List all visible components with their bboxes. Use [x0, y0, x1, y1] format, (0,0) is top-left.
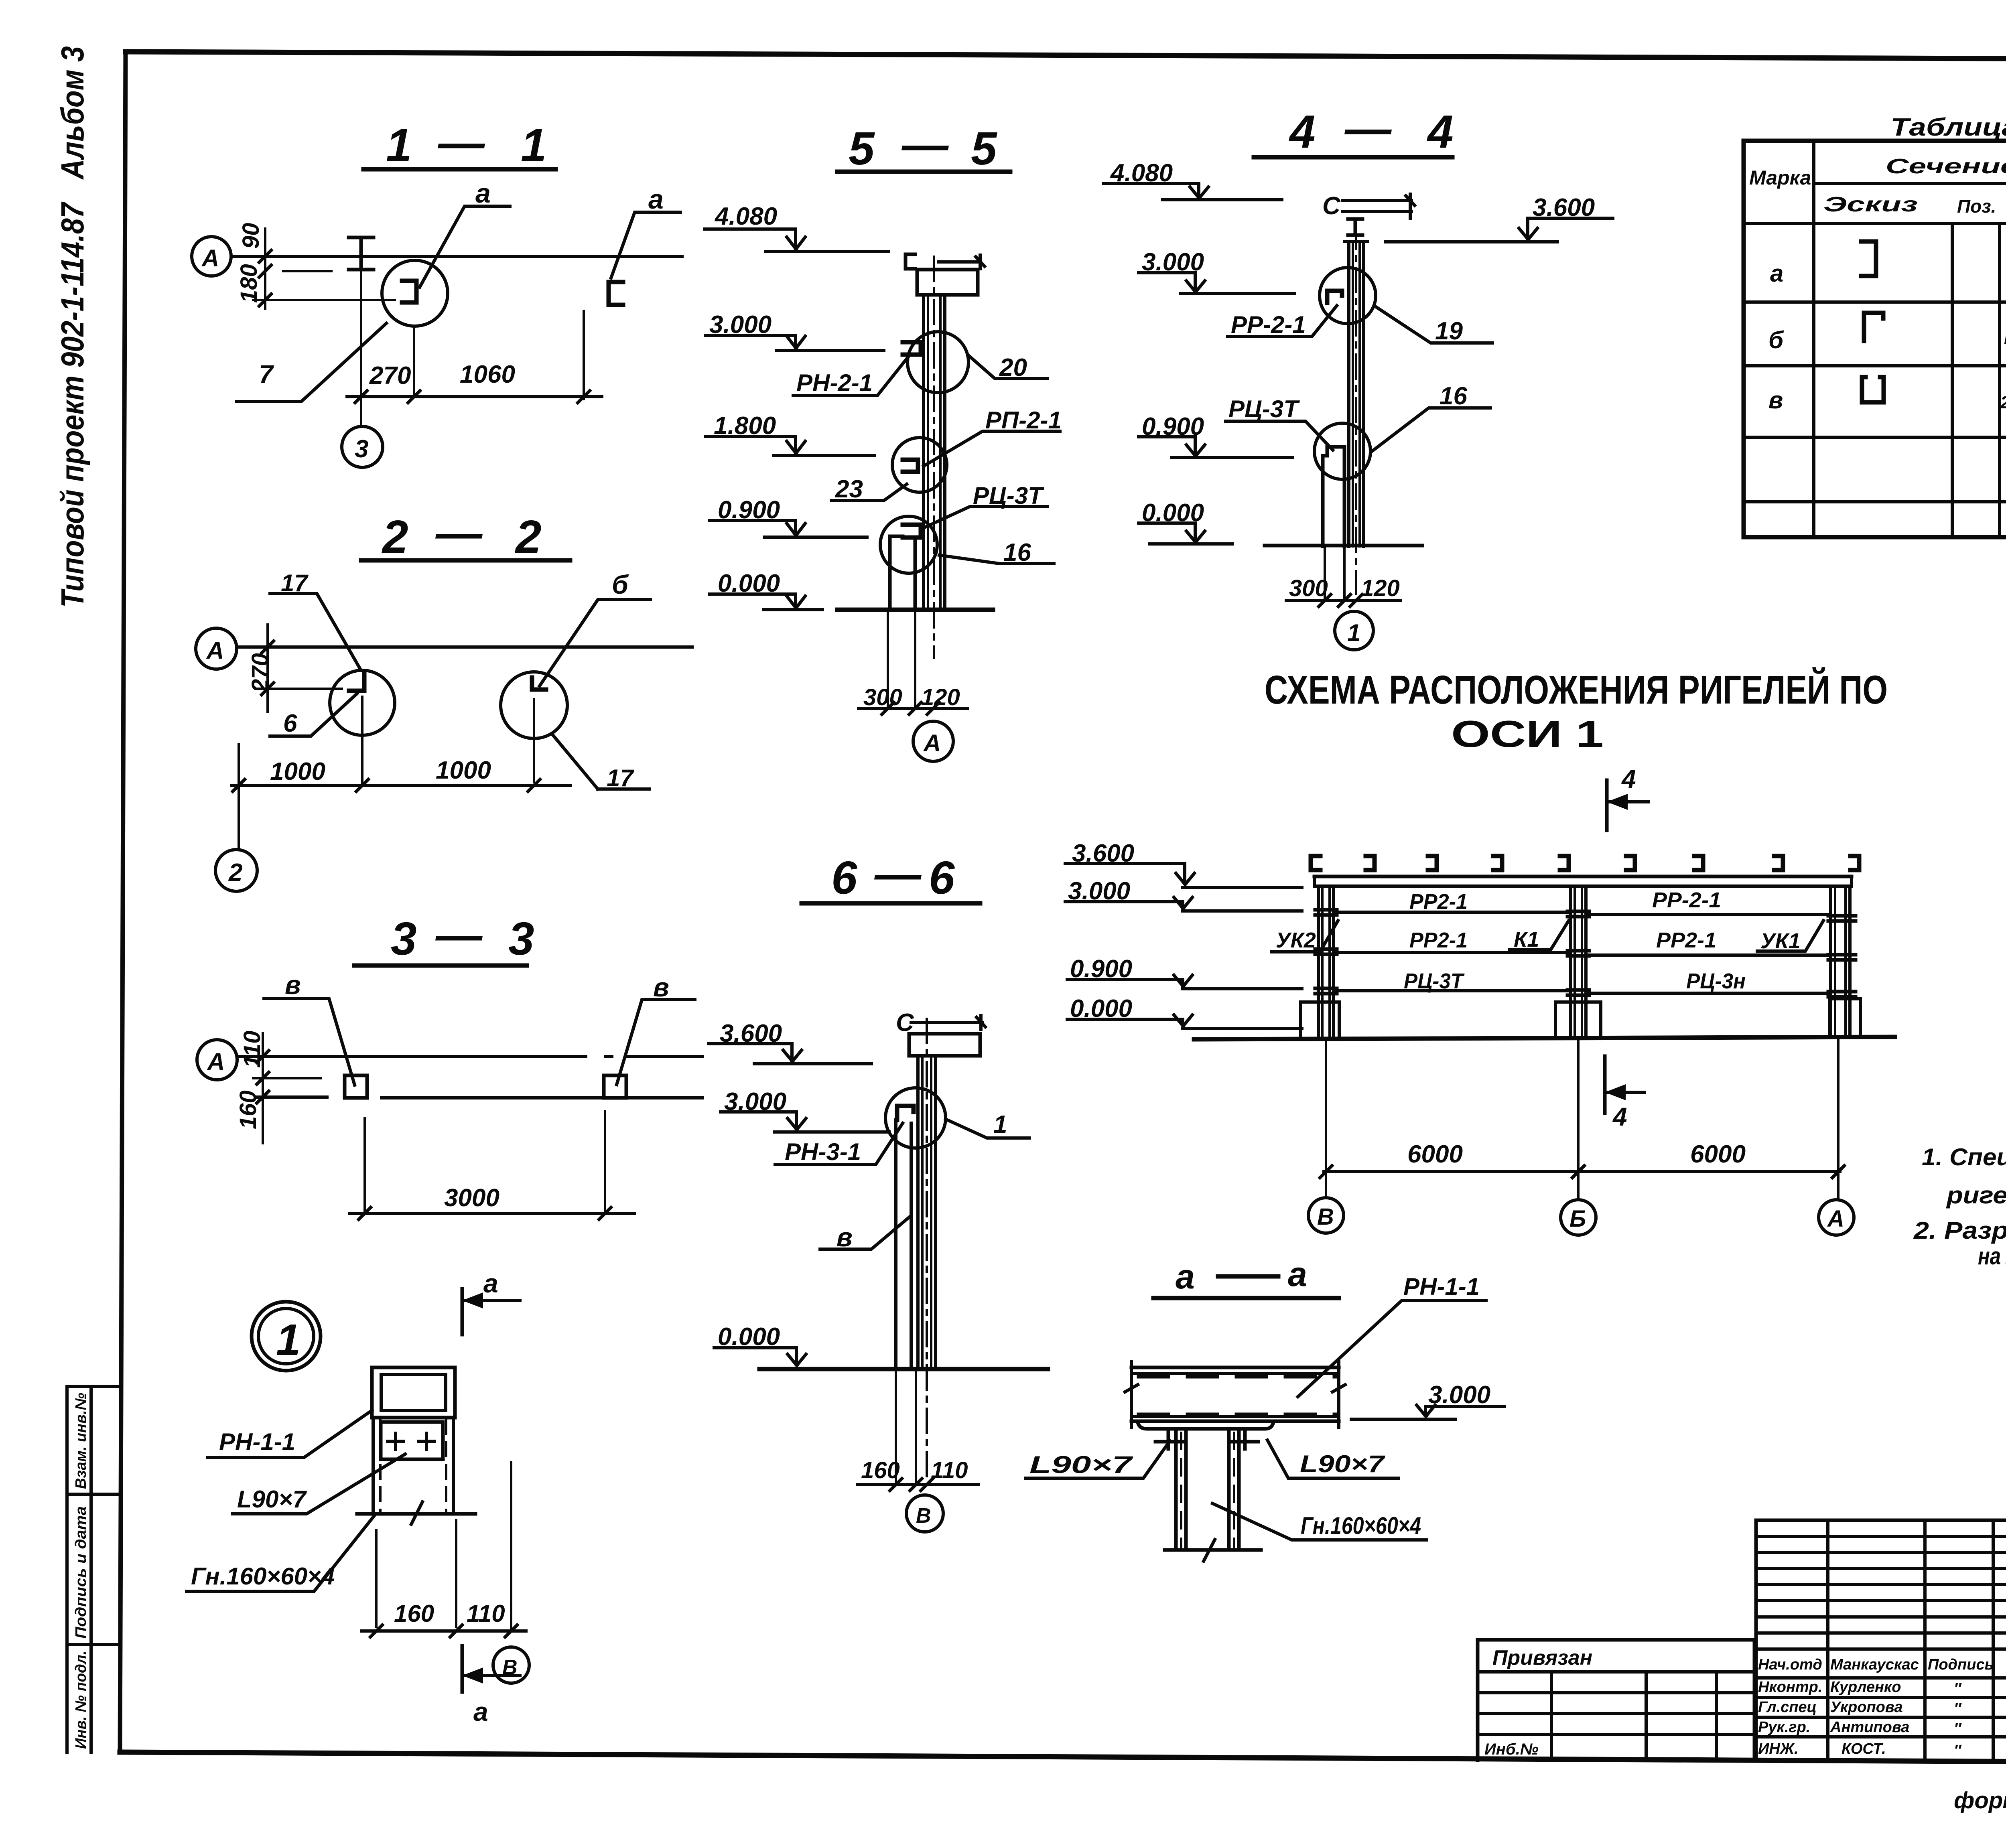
wire extensions below ground — [1325, 546, 1344, 600]
cap plate plan (outer rect) — [372, 1367, 455, 1418]
svg-text:РР2-1: РР2-1 — [1409, 890, 1468, 914]
svg-text:РЦ-3Т: РЦ-3Т — [1404, 969, 1465, 993]
svg-text:А: А — [207, 1048, 225, 1075]
column shaft — [1349, 241, 1364, 546]
column cap plate — [909, 1034, 980, 1056]
svg-text:СХЕМА РАСПОЛОЖЕНИЯ РИГЕЛЕЙ ПО: СХЕМА РАСПОЛОЖЕНИЯ РИГЕЛЕЙ ПО — [1265, 667, 1888, 712]
collar joints left column — [1315, 910, 1337, 994]
wire extension right channel down — [583, 311, 585, 399]
svg-text:РЦ-3Т: РЦ-3Т — [1228, 396, 1300, 422]
svg-text:Типовой проект 902-1-114.87: Типовой проект 902-1-114.87 Альбом 3 — [55, 46, 90, 608]
dim tick marks — [1319, 594, 1362, 607]
wire extension from bracket down — [413, 326, 415, 397]
wire top line with tick — [911, 1016, 985, 1029]
wire stubs to axis bubbles — [1326, 1172, 1838, 1200]
svg-text:а: а — [1770, 260, 1783, 287]
wire axis line A — [237, 645, 692, 649]
dim tick marks — [355, 391, 590, 403]
svg-text:РР2-1: РР2-1 — [1409, 928, 1468, 952]
beam slab top lines — [1131, 1366, 1339, 1369]
svg-text:1: 1 — [993, 1111, 1007, 1138]
wire dim line — [361, 1629, 526, 1633]
svg-text:в: в — [837, 1222, 853, 1252]
svg-text:формат А2: формат А2 — [1954, 1787, 2006, 1814]
column center dash line — [933, 257, 935, 658]
girder end bracket — [1626, 856, 1635, 870]
column base stub — [1323, 447, 1344, 546]
column I-beam right — [1229, 1431, 1239, 1550]
svg-text:А: А — [923, 730, 941, 757]
channel bracket in circle — [903, 460, 918, 472]
wire extensions below ground — [896, 1369, 916, 1485]
node axis bubble В — [1308, 1198, 1344, 1233]
svg-text:4: 4 — [1427, 105, 1454, 158]
svg-text:—: — — [874, 848, 922, 900]
svg-text:1060: 1060 — [460, 361, 515, 388]
node axis bubble 1 — [1335, 611, 1373, 650]
svg-text:L90×7: L90×7 — [237, 1486, 307, 1513]
svg-text:Гн.70×50×3: Гн.70×50×3 — [2004, 328, 2006, 348]
wire table vertical lines — [1814, 141, 2006, 537]
dim tick marks — [890, 1479, 933, 1491]
svg-text:23: 23 — [835, 475, 863, 503]
I-beam symbol on axis — [349, 237, 374, 270]
wire title underline — [1254, 155, 1452, 160]
node axis bubble A — [192, 237, 231, 276]
dim tick marks — [1320, 1166, 1844, 1178]
svg-text:L90×7: L90×7 — [1300, 1450, 1385, 1477]
column shaft — [924, 295, 945, 610]
svg-text:РН-3-1: РН-3-1 — [785, 1138, 861, 1165]
column square right — [604, 1075, 626, 1098]
wire dim line — [858, 1483, 978, 1486]
svg-text:2Гн.160×60×4: 2Гн.160×60×4 — [2000, 393, 2006, 412]
svg-text:Гн.160×60×4: Гн.160×60×4 — [1301, 1512, 1421, 1539]
dim tick marks — [882, 702, 939, 714]
channel bracket in circle — [903, 342, 921, 355]
collar joints right column — [1828, 916, 1856, 997]
beam dashed reinforcement lines — [1139, 1375, 1336, 1379]
svg-text:—: — — [1344, 102, 1392, 154]
corner bracket in circle — [897, 1106, 914, 1120]
left bottom stamp boxes — [67, 1386, 120, 1752]
node axis bubble 2 — [215, 850, 257, 891]
detail circle right — [501, 672, 567, 738]
svg-text:110: 110 — [931, 1457, 968, 1483]
wire extension line vertical — [264, 229, 266, 309]
svg-text:ОСИ 1: ОСИ 1 — [1451, 713, 1604, 755]
column left — [1318, 886, 1334, 1038]
svg-text:6000: 6000 — [1690, 1140, 1746, 1168]
corner bracket in right circle — [532, 678, 546, 690]
cap plate plan (inner rect) — [381, 1375, 446, 1410]
svg-text:Нач.отд: Нач.отд — [1758, 1656, 1822, 1673]
column outline below — [373, 1418, 453, 1513]
detail circle bottom — [880, 516, 937, 573]
girder РН-3-1 edge lines — [896, 1120, 911, 1369]
column shaft — [918, 1056, 936, 1369]
svg-text:1. Спецификацию к схеме распол: 1. Спецификацию к схеме расположения — [1922, 1144, 2006, 1170]
foundation block left — [1301, 1002, 1339, 1038]
svg-text:6: 6 — [929, 852, 955, 904]
wire stamp box grid — [67, 1386, 120, 1752]
girder end bracket — [1493, 856, 1502, 870]
svg-text:4: 4 — [1612, 1102, 1627, 1131]
wire dim line — [859, 707, 968, 710]
wire extension from circles down — [362, 697, 534, 785]
svg-text:7: 7 — [259, 360, 274, 389]
svg-text:″: ″ — [1954, 1680, 1962, 1697]
svg-text:90: 90 — [238, 223, 264, 249]
svg-text:Взам. инв.№: Взам. инв.№ — [73, 1393, 89, 1489]
svg-text:К1: К1 — [1514, 927, 1539, 951]
svg-text:РН-2-1: РН-2-1 — [796, 369, 873, 396]
dim tick marks — [359, 1207, 611, 1219]
beam slab bottom lines — [1131, 1415, 1339, 1418]
foundation block right — [1829, 999, 1860, 1037]
collar joints middle column — [1567, 911, 1589, 995]
svg-text:Укропова: Укропова — [1830, 1699, 1902, 1716]
beam right edge with break — [1332, 1361, 1345, 1427]
svg-text:160: 160 — [394, 1600, 434, 1627]
section mark a (bottom) — [461, 1646, 464, 1692]
svg-text:в: в — [653, 972, 669, 1002]
detail circle top — [1320, 268, 1376, 324]
wire table horizontal lines — [1744, 183, 2006, 502]
node axis bubble Б — [1561, 1200, 1596, 1235]
svg-text:А: А — [1827, 1206, 1844, 1232]
svg-text:5: 5 — [849, 122, 875, 174]
wire bottom border — [120, 1752, 2006, 1764]
wire dim line — [347, 395, 602, 398]
svg-text:6000: 6000 — [1407, 1140, 1463, 1168]
wire extension line at 180 level — [253, 299, 395, 301]
wire ground line — [1194, 1037, 1895, 1039]
svg-text:6: 6 — [831, 852, 858, 904]
svg-text:Поз.: Поз. — [1957, 196, 1996, 217]
column right — [1831, 886, 1850, 1037]
bottom flange of РН-1-1 — [1138, 1422, 1273, 1429]
wire axis line A — [231, 255, 682, 258]
wire from dim line to bubble 2 — [238, 805, 240, 849]
column square left — [345, 1075, 367, 1098]
girder end bracket — [1560, 856, 1569, 870]
svg-text:Инв. № подл.: Инв. № подл. — [73, 1651, 89, 1749]
cleat right with bolt tick — [1232, 1429, 1258, 1449]
svg-text:РР-2-1: РР-2-1 — [1652, 888, 1721, 912]
dim tick marks — [257, 1051, 269, 1103]
svg-text:а: а — [475, 178, 491, 209]
wire ground line with break — [1165, 1548, 1261, 1552]
detail circle middle — [892, 438, 947, 492]
svg-text:1: 1 — [521, 119, 547, 171]
svg-text:РН-1-1: РН-1-1 — [219, 1428, 295, 1455]
node axis bubble А — [1819, 1200, 1854, 1235]
svg-text:1: 1 — [276, 1315, 300, 1365]
wire staff table column lines — [1828, 1520, 1993, 1761]
wire extension at top of squares — [253, 1077, 321, 1079]
svg-text:3.000: 3.000 — [1428, 1381, 1490, 1409]
wire axis line A (dash-dot) — [237, 1055, 702, 1058]
svg-text:б: б — [612, 570, 629, 599]
svg-text:Курленко: Курленко — [1830, 1679, 1901, 1696]
cleat left with bolt tick — [1155, 1429, 1183, 1449]
wire extensions below ground — [888, 610, 915, 708]
girder line level 1 — [1334, 912, 1831, 915]
channel bracket at cap — [906, 254, 915, 269]
svg-text:″: ″ — [1954, 1742, 1962, 1759]
detail circle bottom — [1314, 423, 1370, 479]
svg-text:Инб.№: Инб.№ — [1484, 1740, 1539, 1758]
wire title underline — [363, 167, 556, 172]
svg-text:160: 160 — [861, 1457, 900, 1483]
column middle — [1571, 886, 1586, 1038]
column center dash line — [926, 1019, 928, 1480]
channel section [ right — [609, 282, 623, 305]
wire top border — [126, 52, 2006, 61]
girder line level 2 — [1334, 953, 1831, 955]
svg-text:РП-2-1: РП-2-1 — [985, 407, 1062, 434]
wire extension line at flange level — [283, 270, 331, 272]
svg-text:в: в — [285, 970, 301, 1000]
svg-text:Эскиз: Эскиз — [1823, 193, 1918, 216]
wire binding table outline — [1478, 1640, 1754, 1761]
svg-text:″: ″ — [1954, 1720, 1962, 1737]
svg-text:А: А — [206, 637, 224, 664]
row v: sketch open box — [1862, 377, 1884, 402]
svg-text:В: В — [916, 1504, 931, 1527]
wire cap top lines with tick — [1342, 194, 1415, 218]
column dashed inner lines — [379, 1420, 382, 1511]
svg-text:1000: 1000 — [270, 758, 325, 785]
foundation block middle — [1555, 1002, 1601, 1038]
svg-text:КОСТ.: КОСТ. — [1842, 1740, 1886, 1757]
wire extensions to dim line — [1326, 1038, 1838, 1172]
svg-text:—: — — [435, 909, 483, 961]
svg-text:Гл.спец: Гл.спец — [1758, 1699, 1817, 1716]
node detail bubble 1 (double circle) — [252, 1302, 321, 1371]
wire top line with tick — [938, 255, 985, 269]
svg-text:16: 16 — [1440, 382, 1467, 410]
detail circle left — [330, 670, 395, 735]
wire ground line — [1265, 544, 1422, 548]
wire line at bottom of squares — [256, 1097, 702, 1098]
beam section with bolts — [381, 1422, 443, 1459]
svg-text:2: 2 — [382, 511, 408, 563]
svg-text:300: 300 — [1289, 575, 1328, 601]
svg-text:17: 17 — [607, 765, 634, 791]
ground break slash — [411, 1502, 422, 1524]
section mark 4 (bottom) — [1603, 1056, 1607, 1113]
svg-text:180: 180 — [236, 264, 262, 303]
wire dim line — [1324, 1170, 1840, 1173]
wire extension from I-beam down — [360, 271, 362, 397]
svg-text:—: — — [435, 507, 483, 559]
girder end bracket — [1428, 856, 1437, 870]
wire title underline — [837, 170, 1010, 174]
corner bracket in circle — [1327, 291, 1342, 303]
node axis bubble 3 — [342, 426, 383, 467]
girder end bracket E — [1311, 856, 1320, 870]
svg-text:6: 6 — [283, 710, 297, 737]
wire left border — [120, 52, 126, 1752]
wire title underline — [361, 558, 570, 563]
svg-text:а: а — [648, 184, 664, 215]
wire title block outline — [1756, 1520, 2006, 1761]
svg-text:3000: 3000 — [444, 1184, 499, 1212]
svg-text:2. Разрезы 1-1÷6-6 замаркирова: 2. Разрезы 1-1÷6-6 замаркированы — [1913, 1217, 2006, 1244]
column I-beam left — [1176, 1431, 1186, 1550]
base bracket — [903, 525, 921, 538]
svg-text:В: В — [1317, 1204, 1334, 1230]
svg-text:РР2-1: РР2-1 — [1656, 928, 1716, 952]
svg-text:3: 3 — [508, 913, 534, 965]
svg-text:Сечение: Сечение — [1886, 155, 2006, 178]
column top cap line — [1345, 240, 1367, 243]
wire extension at bracket level — [256, 688, 342, 690]
svg-text:в: в — [1768, 387, 1783, 414]
svg-text:Таблица сечений и усилий: Таблица сечений и усилий — [1890, 114, 2006, 141]
wire title underline — [354, 964, 527, 968]
svg-text:ригелей по оси 1 см. лист 13.: ригелей по оси 1 см. лист 13. — [1946, 1182, 2006, 1209]
node axis bubble B — [906, 1495, 943, 1532]
node axis bubble A — [197, 1040, 237, 1080]
corner bracket in left circle — [349, 674, 364, 691]
svg-text:б: б — [1768, 327, 1784, 353]
wire binding table columns — [1551, 1672, 1716, 1759]
wire extension vertical — [266, 625, 269, 712]
node axis bubble A — [913, 721, 953, 761]
girder end bracket — [1850, 856, 1859, 870]
beam left edge with break — [1125, 1361, 1138, 1427]
bolt cross marks — [388, 1433, 434, 1449]
wire ground line — [837, 608, 993, 612]
wire extension vertical — [262, 1033, 264, 1143]
svg-text:а: а — [483, 1268, 498, 1298]
svg-text:Марка: Марка — [1749, 166, 1811, 189]
svg-text:4: 4 — [1621, 765, 1636, 793]
svg-text:2: 2 — [515, 511, 542, 563]
svg-text:Рук.гр.: Рук.гр. — [1758, 1719, 1810, 1736]
svg-text:4.080: 4.080 — [714, 203, 777, 230]
girder end bracket — [1774, 856, 1783, 870]
node axis bubble B — [493, 1647, 529, 1683]
svg-text:А: А — [201, 245, 219, 272]
detail circle top — [908, 332, 968, 393]
svg-text:4: 4 — [1289, 105, 1316, 158]
left margin rotated stamp text — [55, 46, 90, 608]
svg-text:2: 2 — [228, 859, 242, 886]
wire dim line — [349, 1212, 635, 1215]
girder end bracket — [1694, 856, 1703, 870]
svg-text:120: 120 — [1361, 575, 1400, 601]
svg-text:110: 110 — [467, 1600, 505, 1627]
svg-text:5: 5 — [971, 122, 997, 174]
I-beam stub — [1348, 219, 1362, 235]
svg-text:Подпись и дата: Подпись и дата — [73, 1506, 89, 1639]
wire staff table text row lines — [1756, 1678, 2006, 1737]
channel bracket ] in circle — [402, 281, 416, 302]
wire extensions down — [376, 1462, 511, 1631]
svg-text:3: 3 — [391, 913, 417, 965]
svg-text:Привязан: Привязан — [1492, 1646, 1592, 1669]
svg-text:Б: Б — [1569, 1206, 1586, 1232]
svg-text:Манкаускас: Манкаускас — [1830, 1656, 1919, 1673]
svg-text:Подпись: Подпись — [1928, 1656, 1994, 1673]
svg-text:на листе 13.: на листе 13. — [1978, 1243, 2006, 1270]
svg-text:РР-2-1: РР-2-1 — [1231, 311, 1306, 338]
wire table outer border — [1744, 141, 2006, 537]
dim tick marks — [259, 250, 271, 306]
wire extension from squares down — [365, 1111, 605, 1213]
wire binding table rows — [1478, 1672, 1754, 1734]
wire from dim line to bubble 3 — [360, 397, 362, 426]
wire top chord — [1314, 875, 1852, 878]
svg-text:Гн.160×60×4: Гн.160×60×4 — [191, 1563, 335, 1590]
wire staff table upper row lines — [1756, 1536, 2006, 1649]
svg-text:—: — — [901, 118, 949, 170]
svg-text:1: 1 — [1347, 619, 1360, 646]
svg-text:1: 1 — [386, 119, 412, 171]
column cap plate — [917, 270, 978, 295]
wire ground line — [759, 1367, 1048, 1371]
svg-text:Нконтр.: Нконтр. — [1758, 1679, 1822, 1696]
wire extension left end — [238, 744, 240, 805]
wire dim line — [1286, 599, 1401, 602]
node axis bubble A — [196, 628, 237, 669]
row b: sketch corner Г — [1864, 313, 1883, 341]
svg-text:Антипова: Антипова — [1830, 1719, 1909, 1736]
dim tick marks — [262, 641, 274, 695]
wire ground line — [357, 1512, 475, 1516]
svg-text:УК2: УК2 — [1276, 928, 1316, 952]
svg-text:″: ″ — [1954, 1700, 1962, 1717]
row a: sketch channel ] — [1861, 241, 1876, 276]
svg-text:L90×7: L90×7 — [1029, 1451, 1133, 1478]
svg-text:120: 120 — [921, 684, 960, 710]
svg-text:19: 19 — [1435, 317, 1463, 345]
wire title underline — [802, 901, 980, 906]
column base stub — [890, 536, 915, 610]
detail circle — [885, 1088, 946, 1148]
detail circle — [382, 260, 448, 326]
girder end bracket — [1366, 856, 1375, 870]
svg-text:110: 110 — [239, 1031, 265, 1068]
svg-text:а: а — [473, 1697, 488, 1726]
svg-text:С: С — [1322, 192, 1341, 220]
dim tick marks — [370, 1625, 517, 1637]
svg-text:РЦ-3Т: РЦ-3Т — [973, 482, 1044, 509]
svg-text:РЦ-3н: РЦ-3н — [1686, 969, 1746, 993]
svg-text:1000: 1000 — [436, 757, 491, 784]
wire dim line — [231, 784, 570, 787]
wire title underline — [1153, 1296, 1339, 1300]
svg-text:3: 3 — [355, 435, 368, 463]
svg-text:а: а — [1288, 1255, 1307, 1294]
svg-text:270: 270 — [369, 362, 411, 389]
svg-text:—: — — [437, 116, 485, 168]
dim tick marks — [233, 779, 540, 791]
svg-text:ИНЖ.: ИНЖ. — [1758, 1740, 1799, 1757]
girder line level 3 — [1334, 991, 1831, 993]
column center dash line — [1355, 225, 1357, 594]
svg-text:РН-1-1: РН-1-1 — [1403, 1273, 1480, 1300]
svg-text:300: 300 — [863, 684, 902, 710]
svg-text:а: а — [1176, 1258, 1195, 1296]
